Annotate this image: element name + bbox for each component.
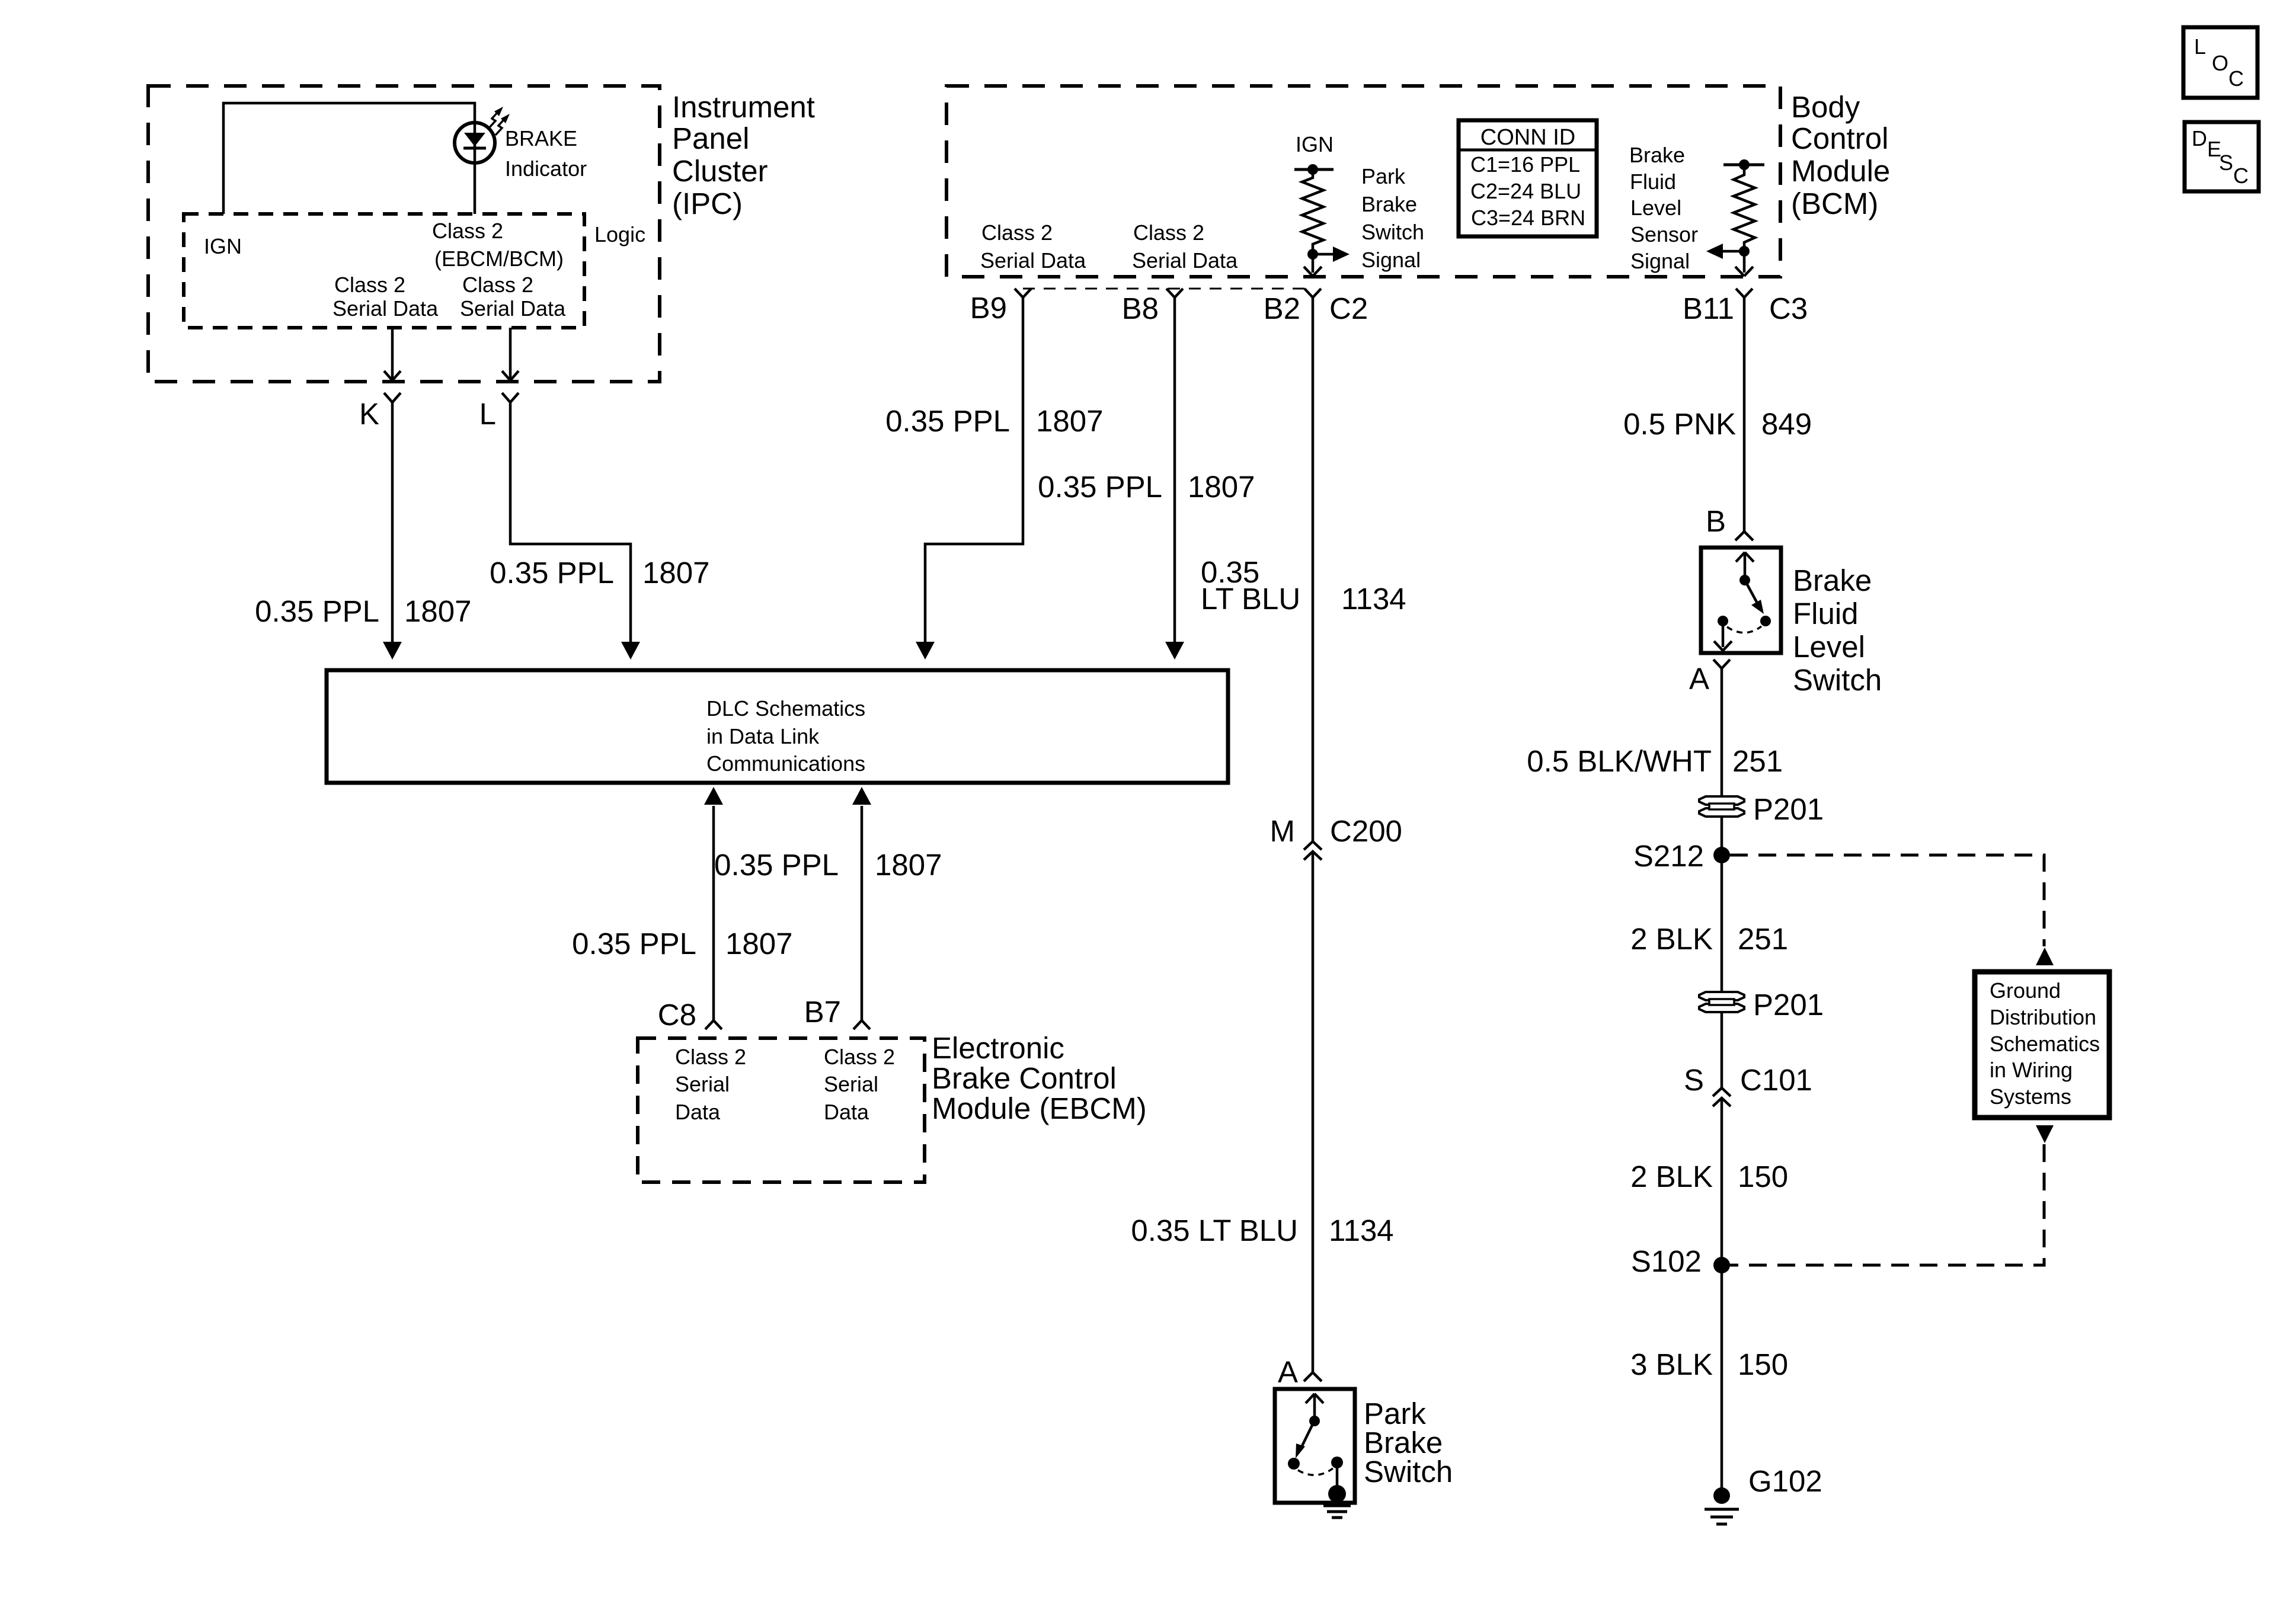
indicator lamp BRAKE (LED) [455,107,510,163]
svg-text:C2: C2 [1329,292,1368,325]
connector C200 in-line [1304,841,1322,860]
label BRAKE Indicator [505,126,587,181]
svg-text:1807: 1807 [642,556,709,590]
wire B7 to DLC (up arrow) [861,806,864,1020]
svg-text:Ground: Ground [1990,978,2061,1003]
svg-text:251: 251 [1738,922,1788,956]
wire label 0.35 LT BLU 1134 (lower) [1131,1214,1393,1247]
wire C8 to DLC (up arrow) [712,806,715,1020]
svg-text:Serial Data: Serial Data [1132,248,1238,273]
svg-text:Cluster: Cluster [672,154,768,188]
label Class 2 Serial Data (B7, EBCM) [824,1045,895,1124]
svg-text:Indicator: Indicator [505,156,587,181]
svg-text:IGN: IGN [1296,132,1334,156]
svg-text:S102: S102 [1631,1244,1702,1278]
switch box Park Brake Switch [1275,1389,1355,1503]
svg-text:A: A [1278,1355,1298,1389]
wire C3/B11 to brake fluid level switch [1743,297,1746,532]
svg-text:Control: Control [1791,121,1888,155]
wire C200 to park brake switch [1312,852,1315,1372]
svg-text:0.5 PNK: 0.5 PNK [1623,407,1736,441]
svg-text:Serial Data: Serial Data [460,296,566,321]
svg-text:0.35 PPL: 0.35 PPL [714,848,839,882]
svg-text:B7: B7 [804,995,841,1029]
svg-text:C8: C8 [658,998,696,1032]
svg-text:0.35 PPL: 0.35 PPL [255,594,379,628]
svg-text:Module (EBCM): Module (EBCM) [932,1092,1147,1125]
label Body Control Module (BCM) [1791,90,1890,220]
dashed wire S212 to ground distribution box [1730,855,2044,946]
wire IGN to BRAKE indicator [223,103,475,214]
label Class 2 Serial Data (C8, EBCM) [675,1045,746,1124]
svg-text:Brake: Brake [1793,564,1872,597]
wire label 0.35 PPL 1807 (K wire) [255,594,471,628]
node brake fluid rail [1723,164,1764,167]
pin B9 connector [1015,289,1031,297]
svg-text:Class 2: Class 2 [1133,220,1204,245]
svg-text:B2: B2 [1264,292,1300,325]
svg-text:Class 2: Class 2 [824,1045,895,1069]
box Ground Distribution Schematics [1975,972,2109,1118]
wire B9 to DLC [925,297,1023,642]
pin L connector [502,393,519,402]
pin B connector (brake fluid level switch) [1735,532,1753,540]
svg-text:S: S [1684,1063,1704,1097]
svg-text:Communications: Communications [706,751,865,776]
svg-text:Signal: Signal [1361,248,1421,272]
svg-text:Brake: Brake [1629,143,1685,167]
svg-text:2 BLK: 2 BLK [1630,1160,1713,1193]
switch contact node right (fluid) [1760,616,1771,626]
svg-text:150: 150 [1738,1347,1788,1381]
wire label 0.5 PNK 849 [1623,407,1812,441]
svg-text:BRAKE: BRAKE [505,126,577,151]
svg-text:0.35 LT BLU: 0.35 LT BLU [1131,1214,1298,1247]
svg-text:C1=16 PPL: C1=16 PPL [1470,152,1580,177]
svg-text:0.35 PPL: 0.35 PPL [885,404,1010,438]
svg-text:1807: 1807 [725,927,792,961]
wire B2 inside BCM with arrow [1312,254,1315,273]
label Class 2 Serial Data (right, IPC) [460,273,566,321]
wire label 0.5 BLK/WHT 251 [1527,744,1783,778]
svg-text:2 BLK: 2 BLK [1630,922,1713,956]
wire L to DLC [510,402,631,642]
switch box Brake Fluid Level Switch [1701,548,1781,653]
svg-text:1807: 1807 [1188,470,1255,504]
svg-text:C: C [2233,164,2249,188]
svg-text:B9: B9 [970,291,1007,325]
svg-text:L: L [479,397,496,431]
node junction brake fluid signal [1739,246,1750,257]
wire right contact to case ground [1336,1462,1339,1489]
svg-text:Class 2: Class 2 [462,273,533,297]
svg-text:Distribution: Distribution [1990,1005,2096,1029]
svg-text:Fluid: Fluid [1793,597,1859,630]
svg-text:IGN: IGN [204,234,242,258]
wire label 0.35 PPL 1807 (B8 wire) [1038,470,1255,504]
svg-text:Switch: Switch [1361,220,1424,244]
svg-text:CONN ID: CONN ID [1480,125,1575,150]
switch pivot node (fluid) [1739,575,1750,585]
wire C101 to G102 [1721,1098,1723,1489]
svg-text:Park: Park [1361,164,1406,188]
label Ground Distribution Schematics in Wiring Systems [1990,978,2100,1109]
svg-text:D: D [2192,126,2207,151]
svg-text:Brake: Brake [1361,192,1417,216]
svg-text:S212: S212 [1633,839,1704,873]
svg-text:P201: P201 [1753,792,1824,826]
grommet P201 (upper) [1699,796,1744,817]
dashed wire ground distribution box to S102 [1730,1144,2044,1265]
box DLC Schematics [327,670,1228,783]
grommet P201 (lower) [1699,992,1744,1012]
label Park Brake Switch Signal [1361,164,1424,272]
label Class 2 Serial Data (left, IPC) [332,273,439,321]
switch contact arrow down (fluid) [1714,621,1732,651]
wire K inside IPC with arrow [391,328,394,379]
wire B2 to C200 [1312,297,1315,841]
pin B7 connector [853,1020,870,1029]
svg-text:Schematics: Schematics [1990,1032,2100,1056]
pin B11 connector [1736,289,1753,297]
label Class 2 Serial Data (B8, BCM) [1132,220,1238,273]
pin A connector (park brake switch) [1304,1372,1322,1381]
svg-text:Fluid: Fluid [1630,169,1676,194]
svg-text:Data: Data [675,1100,721,1124]
svg-text:C2=24 BLU: C2=24 BLU [1470,179,1581,203]
svg-text:C3=24 BRN: C3=24 BRN [1471,206,1585,230]
svg-text:0.35 PPL: 0.35 PPL [572,927,696,961]
pin B8 connector [1166,289,1183,297]
svg-text:3 BLK: 3 BLK [1630,1347,1713,1381]
connector table CONN ID [1459,120,1597,236]
svg-text:Class 2: Class 2 [675,1045,746,1069]
wire L inside IPC with arrow [509,328,512,379]
label Brake Fluid Level Sensor Signal [1629,143,1698,273]
svg-text:G102: G102 [1748,1464,1822,1498]
ground node G102 [1713,1487,1730,1504]
connector C101 in-line [1713,1088,1731,1106]
svg-text:in Wiring: in Wiring [1990,1058,2073,1082]
pin K connector [384,393,401,402]
svg-text:Brake Control: Brake Control [932,1061,1117,1095]
label Electronic Brake Control Module (EBCM) [932,1031,1147,1125]
svg-text:in Data Link: in Data Link [706,724,820,748]
wire label 0.35 PPL 1807 (L wire) [490,556,709,590]
svg-text:Electronic: Electronic [932,1031,1064,1065]
svg-text:1807: 1807 [875,848,942,882]
svg-text:(EBCM/BCM): (EBCM/BCM) [434,247,564,271]
switch contact node left (fluid) [1718,616,1728,626]
svg-text:Logic: Logic [594,222,645,247]
svg-text:Serial: Serial [824,1072,878,1096]
icon box DESC [2185,122,2259,191]
wire label 0.35 PPL 1807 (B9 wire) [885,404,1103,438]
switch contact node left (park) [1288,1458,1300,1470]
switch contact arrow up (fluid) [1736,552,1754,580]
wire label 3 BLK 150 [1630,1347,1788,1381]
wire B11 inside BCM with arrow [1743,251,1746,273]
wire A to P201 [1721,668,1723,1088]
switch travel dashed arc (park) [1298,1468,1333,1475]
svg-text:C200: C200 [1330,814,1402,848]
switch contact node right (park) [1331,1457,1343,1468]
svg-text:0.35 PPL: 0.35 PPL [1038,470,1162,504]
svg-text:Class 2: Class 2 [981,220,1053,245]
wire label 0.35 PPL 1807 (B7 wire) [714,848,942,882]
svg-text:Class 2: Class 2 [334,273,405,297]
switch travel dashed arc (fluid) [1727,626,1761,633]
svg-text:Data: Data [824,1100,869,1124]
svg-text:Serial Data: Serial Data [980,248,1086,273]
node IGN rail [1294,168,1334,171]
ground symbol (park brake switch) [1323,1506,1351,1518]
svg-text:L: L [2194,34,2206,59]
svg-text:B11: B11 [1683,292,1734,325]
wire arrow to Brake Fluid Level Sensor Signal label [1722,250,1744,253]
label DLC Schematics in Data Link Communications [706,696,865,776]
wire K to DLC [391,402,394,642]
svg-text:Sensor: Sensor [1630,222,1698,247]
ground symbol G102 [1705,1509,1739,1524]
label Park Brake Switch [1364,1397,1453,1489]
ground node on park brake switch case [1328,1485,1346,1503]
module EBCM dashed box [638,1038,925,1182]
wire label 0.35 LT BLU 1134 (upper) [1201,555,1406,616]
wire B8 to DLC [1173,297,1176,642]
label Class 2 (EBCM/BCM) [432,219,564,271]
svg-text:Panel: Panel [672,121,749,155]
svg-text:Serial Data: Serial Data [332,296,439,321]
svg-text:Body: Body [1791,90,1860,124]
wire label 2 BLK 150 [1630,1160,1788,1193]
svg-text:0.35 PPL: 0.35 PPL [490,556,614,590]
pin A connector (brake fluid level switch) [1713,660,1730,668]
svg-text:Switch: Switch [1364,1455,1453,1489]
svg-text:1134: 1134 [1341,582,1406,616]
svg-text:Signal: Signal [1630,249,1690,273]
svg-text:Level: Level [1630,196,1681,220]
module IPC (Instrument Panel Cluster) dashed box [148,86,660,382]
resistor park brake pull-up [1302,169,1323,254]
svg-text:O: O [2212,51,2228,75]
svg-text:LT BLU: LT BLU [1201,582,1300,616]
label Brake Fluid Level Switch [1793,564,1882,697]
svg-text:Systems: Systems [1990,1084,2071,1109]
wire label 2 BLK 251 [1630,922,1788,956]
svg-text:Instrument: Instrument [672,90,815,124]
svg-text:Switch: Switch [1793,663,1882,697]
wire label 0.35 PPL 1807 (C8 wire) [572,927,792,961]
svg-text:K: K [359,397,379,431]
arrow out of ground distribution box [2036,1125,2054,1143]
svg-text:251: 251 [1732,744,1783,778]
svg-text:DLC Schematics: DLC Schematics [706,696,865,721]
module BCM (Body Control Module) dashed box [946,86,1780,277]
label Instrument Panel Cluster (IPC) [672,90,815,220]
svg-text:S: S [2219,151,2233,175]
arrow into ground distribution box [2036,948,2054,965]
svg-text:B: B [1706,504,1726,538]
svg-text:P201: P201 [1753,988,1824,1022]
switch contact arrow up (park) [1306,1394,1323,1421]
svg-text:M: M [1270,814,1295,848]
svg-text:B8: B8 [1122,292,1159,325]
splice S102 [1713,1257,1730,1273]
svg-text:Module: Module [1791,154,1890,188]
pin C8 connector [705,1020,722,1029]
icon box LOC [2183,27,2257,98]
svg-text:1807: 1807 [1036,404,1103,438]
svg-text:A: A [1689,662,1709,696]
svg-text:0.5 BLK/WHT: 0.5 BLK/WHT [1527,744,1712,778]
svg-text:Class 2: Class 2 [432,219,503,243]
resistor brake fluid pull-up [1734,165,1755,251]
svg-text:150: 150 [1738,1160,1788,1193]
svg-text:C101: C101 [1740,1063,1812,1097]
label Class 2 Serial Data (B9, BCM) [980,220,1086,273]
svg-text:1134: 1134 [1329,1214,1394,1247]
switch moving arm (park) [1302,1420,1315,1446]
svg-text:(BCM): (BCM) [1791,187,1878,220]
connector grouping dashed line under BCM [1023,288,1313,290]
svg-text:(IPC): (IPC) [672,187,743,220]
logic block dashed box inside IPC [184,214,584,328]
svg-text:Level: Level [1793,630,1865,664]
node junction park brake signal [1307,249,1318,260]
svg-text:C3: C3 [1769,292,1808,325]
wire arrow to Park Brake Switch Signal label [1313,253,1335,256]
svg-text:1807: 1807 [404,594,471,628]
pin B2 connector [1304,289,1321,297]
switch pivot node (park) [1309,1416,1320,1426]
switch moving arm (fluid) [1745,580,1757,602]
svg-text:C: C [2228,66,2244,91]
svg-text:Serial: Serial [675,1072,730,1096]
svg-text:849: 849 [1761,407,1812,441]
splice S212 [1713,847,1730,863]
